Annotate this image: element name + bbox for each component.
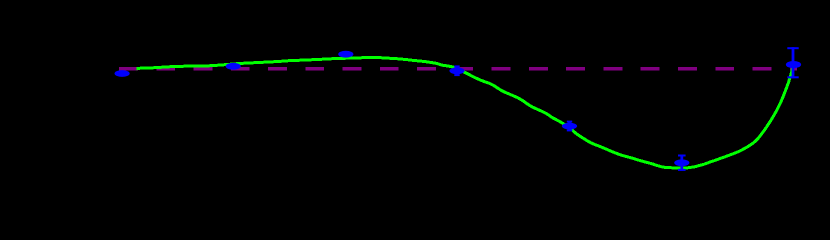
error bar P7 [787,47,798,78]
data point P7 [786,61,801,68]
data point P6 [674,159,689,166]
data point P1 [115,70,130,77]
data point P5 [562,123,577,130]
error bar P5 [567,121,572,131]
green fitted curve [137,58,794,169]
data point P2 [226,63,241,70]
magenta dashed baseline [119,67,797,71]
error bar P6 [678,155,686,171]
error bar P4 [454,66,459,76]
data point P3 [338,51,353,58]
data point P4 [449,67,464,74]
